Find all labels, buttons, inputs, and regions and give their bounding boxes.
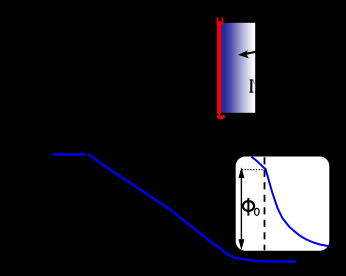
red surface double-arrow (film thickness marker) xyxy=(217,17,225,119)
label M (serif, drawn as vector strokes; mostly hidden on black background) xyxy=(249,79,255,92)
phi_0 label xyxy=(243,198,254,216)
metal slab M (blue->white gradient rectangle) xyxy=(220,23,255,113)
inset double-headed arrow for phi_0 xyxy=(239,169,244,248)
inset white rounded box xyxy=(236,157,330,251)
top bracket head xyxy=(217,17,224,24)
inset screened-potential curve xyxy=(252,157,330,246)
field arrow (black, pointing left into slab) xyxy=(239,51,256,57)
shaft xyxy=(217,22,221,114)
bottom arrowhead xyxy=(217,113,221,116)
main potential curve: linear drop + exponential screening tail xyxy=(88,154,297,262)
main potential curve: flat vacuum level xyxy=(53,153,86,156)
inset dashed interface line xyxy=(264,157,266,250)
inset dotted level line xyxy=(242,169,264,171)
